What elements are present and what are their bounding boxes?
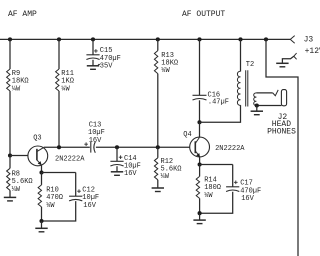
wire Q4 emitter ground stub bbox=[199, 213, 201, 220]
capacitor C16 bbox=[193, 92, 229, 107]
node R10/C12 ground junction bbox=[39, 219, 43, 223]
wire R8 bottom lead bbox=[9, 190, 11, 197]
svg-text:T2: T2 bbox=[246, 61, 254, 69]
capacitor C15 bbox=[86, 47, 120, 70]
svg-text:AF AMP: AF AMP bbox=[8, 10, 37, 19]
wire T2 primary bottom lead bbox=[200, 105, 241, 122]
wire C12 top lead bbox=[75, 173, 77, 197]
wire T2 primary top lead bbox=[240, 39, 242, 71]
resistor R8 bbox=[7, 168, 33, 194]
svg-text:¼W: ¼W bbox=[12, 186, 21, 194]
node rail/T2 bbox=[238, 37, 242, 41]
svg-text:¼W: ¼W bbox=[204, 192, 213, 200]
wire C13 to Q4 base bbox=[96, 146, 190, 148]
wire +12V top rail bbox=[0, 38, 290, 40]
wire R12 bottom lead bbox=[157, 180, 159, 188]
wire R9 bottom to Q3 base node bbox=[9, 91, 11, 156]
jack J3 tip contact bbox=[290, 36, 294, 44]
wire R13 top lead bbox=[157, 39, 159, 50]
wire T2 secondary top to J2 tip bbox=[256, 92, 272, 94]
svg-text:16V: 16V bbox=[241, 195, 254, 203]
node T2 secondary ground junction bbox=[255, 103, 259, 107]
svg-text:2N2222A: 2N2222A bbox=[215, 145, 245, 153]
resistor R12 bbox=[154, 158, 181, 181]
svg-text:+12V: +12V bbox=[305, 47, 320, 56]
resistor R11 bbox=[56, 69, 74, 93]
wire Q3 emitter lead bbox=[41, 165, 43, 173]
ground R12 bbox=[152, 187, 164, 189]
node Q3 base junction bbox=[8, 153, 12, 157]
wire C14 top lead bbox=[116, 147, 118, 161]
wire J3 feed down right side bbox=[266, 39, 298, 256]
jack J3 sleeve contact bbox=[294, 53, 297, 59]
wire Q3 base lead bbox=[10, 155, 28, 157]
capacitor C13 bbox=[84, 122, 105, 153]
wire C12 bottom lead bbox=[42, 201, 76, 221]
resistor R10 bbox=[38, 185, 63, 210]
wire R13 bottom to signal node bbox=[157, 74, 159, 148]
node R14/C17 ground junction bbox=[198, 211, 202, 215]
ground C14 bbox=[111, 171, 123, 173]
svg-text:¼W: ¼W bbox=[46, 202, 55, 210]
transformer T2 bbox=[237, 61, 256, 106]
node Q3 emitter junction bbox=[39, 170, 43, 174]
svg-text:¼W: ¼W bbox=[161, 67, 170, 75]
ground R8 bbox=[4, 196, 16, 198]
svg-text:16V: 16V bbox=[83, 202, 96, 210]
wire Q4 emitter box top bbox=[200, 164, 233, 166]
wire C15 top lead bbox=[92, 39, 94, 54]
transistor Q3 bbox=[28, 134, 85, 165]
svg-text:35V: 35V bbox=[100, 62, 113, 70]
node rail/R11 bbox=[57, 37, 61, 41]
node rail/J3 feed bbox=[264, 37, 268, 41]
label J2 HEADPHONES bbox=[267, 113, 296, 136]
svg-text:16V: 16V bbox=[89, 137, 102, 145]
wire R12 top lead bbox=[157, 147, 159, 158]
node rail/R13 bbox=[156, 37, 160, 41]
capacitor C17 bbox=[226, 180, 261, 203]
node C14 junction bbox=[115, 145, 119, 149]
svg-text:.47µF: .47µF bbox=[208, 99, 229, 107]
wire R14 top lead bbox=[199, 165, 201, 177]
transistor Q4 bbox=[183, 131, 245, 157]
wire R10 top lead bbox=[41, 173, 43, 185]
wire C16 bottom lead bbox=[199, 100, 201, 122]
wire C17 top lead bbox=[232, 165, 234, 187]
node rail/C15 bbox=[91, 37, 95, 41]
svg-text:16V: 16V bbox=[124, 170, 137, 178]
resistor R13 bbox=[154, 51, 178, 75]
wire C14 bottom lead bbox=[116, 166, 118, 171]
wire T2 secondary ground stub bbox=[256, 106, 258, 112]
node rail/R9 bbox=[8, 37, 12, 41]
capacitor C14 bbox=[110, 155, 140, 178]
node collector/R11 junction bbox=[57, 145, 61, 149]
wire C16 top lead bbox=[199, 39, 201, 95]
svg-text:J3: J3 bbox=[304, 36, 314, 45]
jack J2 plug body bbox=[281, 90, 286, 106]
wire Q3 collector to C13 bbox=[44, 146, 90, 148]
wire Q3 emitter ground stub bbox=[41, 221, 43, 228]
resistor R14 bbox=[196, 176, 221, 199]
wire C15 bottom lead bbox=[92, 60, 94, 66]
wire Q4 emitter lead bbox=[199, 157, 201, 164]
svg-text:AF OUTPUT: AF OUTPUT bbox=[182, 10, 225, 19]
wire R8 top lead bbox=[9, 156, 11, 169]
wire J3 sleeve to ground bbox=[282, 56, 293, 63]
node Q4 emitter junction bbox=[198, 162, 202, 166]
svg-text:¼W: ¼W bbox=[61, 85, 70, 93]
resistor R9 bbox=[7, 69, 29, 93]
ground R14/C17 bbox=[193, 219, 205, 221]
wire R14 bottom lead bbox=[199, 198, 201, 213]
node Q4 collector junction bbox=[197, 120, 201, 124]
svg-text:Q4: Q4 bbox=[183, 131, 191, 139]
ground J3 bbox=[276, 62, 288, 64]
node R13/R12 junction bbox=[156, 145, 160, 149]
svg-text:Q3: Q3 bbox=[33, 134, 41, 142]
wire R9 top lead bbox=[9, 39, 11, 69]
node rail/C16 bbox=[197, 37, 201, 41]
wire R11 bottom to collector node bbox=[58, 91, 60, 147]
ground R10/C12 bbox=[35, 227, 47, 229]
svg-text:2N2222A: 2N2222A bbox=[55, 155, 85, 163]
svg-text:¼W: ¼W bbox=[161, 173, 170, 181]
wire R10 bottom lead bbox=[41, 207, 43, 221]
ground C15 bbox=[87, 65, 99, 67]
wire Q4 collector lead bbox=[199, 122, 201, 137]
wire T2 secondary bottom to J2 sleeve bbox=[256, 105, 281, 107]
capacitor C12 bbox=[69, 187, 99, 210]
jack J2 tip contact bbox=[273, 90, 279, 96]
ground T2 secondary bbox=[251, 110, 263, 112]
label J3 +12V bbox=[304, 36, 320, 56]
wire Q3 emitter box top bbox=[42, 172, 76, 174]
wire R11 top lead bbox=[58, 39, 60, 69]
svg-text:PHONES: PHONES bbox=[267, 127, 296, 136]
svg-text:¼W: ¼W bbox=[12, 85, 21, 93]
wire C17 bottom lead bbox=[200, 192, 233, 214]
